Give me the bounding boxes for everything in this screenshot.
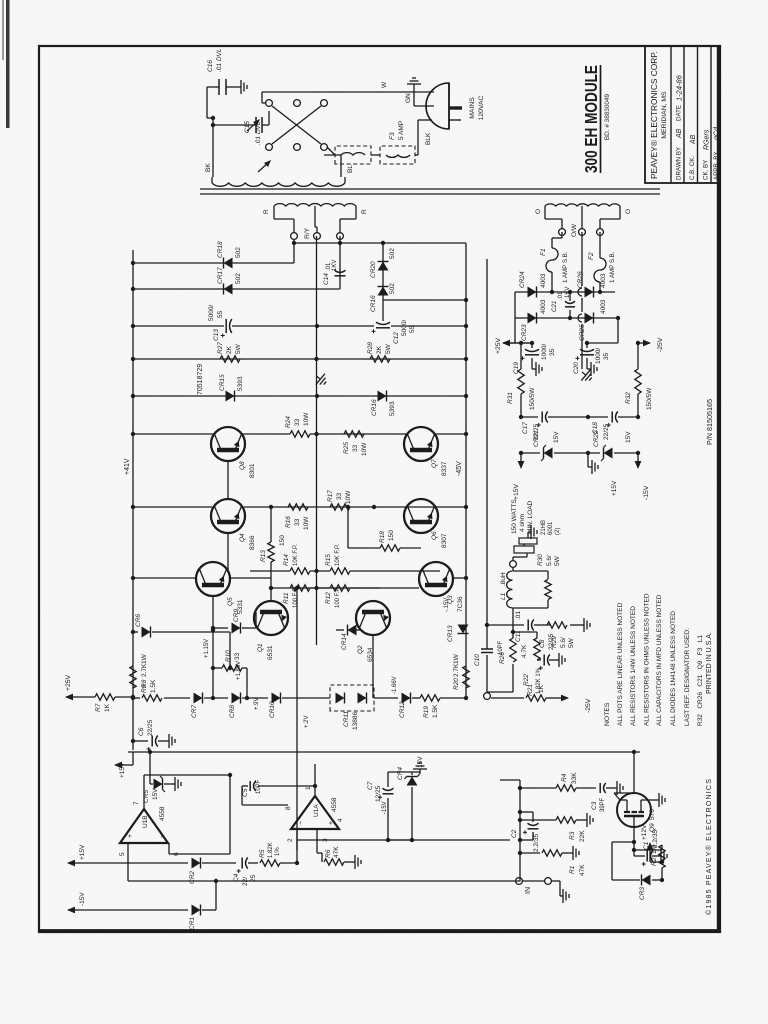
svg-text:+15V: +15V — [119, 762, 126, 778]
capacitor C16 .01 DVL with ground — [207, 86, 219, 88]
svg-text:33: 33 — [352, 444, 359, 452]
svg-text:+: + — [127, 834, 134, 838]
svg-text:R20: R20 — [453, 678, 460, 690]
title block — [645, 46, 720, 183]
svg-text:Q7: Q7 — [431, 459, 438, 468]
svg-text:CR22: CR22 — [593, 430, 600, 447]
svg-text:O/W: O/W — [571, 223, 578, 237]
svg-text:CR14: CR14 — [341, 633, 348, 650]
svg-text:8337: 8337 — [441, 461, 448, 476]
capacitor C19 1000/35 — [525, 354, 539, 356]
svg-text:8: 8 — [285, 806, 292, 810]
svg-text:R17: R17 — [327, 490, 334, 502]
svg-text:O: O — [535, 209, 542, 214]
svg-text:CR12: CR12 — [399, 701, 406, 718]
svg-text:6531: 6531 — [267, 645, 274, 660]
svg-text:CR21: CR21 — [533, 430, 540, 447]
svg-text:CR13: CR13 — [447, 625, 454, 642]
Q4 collector emitter column — [133, 506, 212, 508]
svg-text:C7: C7 — [367, 781, 374, 790]
svg-text:8366: 8366 — [249, 535, 256, 550]
diode CR14 — [336, 629, 344, 631]
svg-text:4558: 4558 — [331, 797, 338, 812]
svg-text:CR4: CR4 — [397, 767, 404, 780]
resistor R21 1K to -25V — [491, 697, 524, 699]
svg-text:R24: R24 — [285, 416, 292, 428]
svg-text:R10: R10 — [225, 650, 232, 662]
svg-text:+25V: +25V — [495, 337, 502, 354]
svg-text:5W: 5W — [385, 343, 392, 354]
svg-text:5W: 5W — [235, 343, 242, 354]
svg-text:+: + — [328, 821, 335, 825]
svg-text:.01 DVL: .01 DVL — [216, 48, 223, 72]
svg-text:150: 150 — [388, 530, 395, 541]
svg-text:4558: 4558 — [159, 806, 166, 821]
capacitor C4 22/25 — [241, 858, 243, 869]
transistor Q4 8366 — [211, 499, 245, 533]
svg-text:DRAWN BY: DRAWN BY — [676, 147, 683, 180]
resistor R20 2.7K 1W — [463, 666, 469, 688]
svg-text:CR3: CR3 — [639, 887, 646, 900]
wire W — [262, 91, 434, 93]
svg-text:R18: R18 — [379, 531, 386, 543]
zener CR21 15V — [521, 452, 540, 454]
svg-text:25: 25 — [250, 874, 257, 882]
svg-text:8307: 8307 — [441, 533, 448, 548]
zener CR4 15V — [407, 777, 418, 786]
svg-text:R7: R7 — [95, 703, 102, 712]
resistor R26 4.7K — [512, 664, 514, 692]
secondary 1 terminals — [291, 233, 298, 240]
svg-text:1.82K: 1.82K — [268, 842, 274, 858]
svg-text:©1985 PEAVEY® ELECTRONICS: ©1985 PEAVEY® ELECTRONICS — [705, 778, 713, 915]
svg-text:CR11: CR11 — [343, 710, 350, 727]
svg-text:55: 55 — [409, 325, 416, 333]
transistor Q3 7C36 — [419, 562, 453, 596]
svg-text:C5: C5 — [242, 788, 249, 797]
svg-text:MIN. LOAD: MIN. LOAD — [527, 500, 534, 534]
capacitor C8 22/25 — [543, 655, 545, 666]
diode CR7 — [194, 693, 203, 704]
svg-text:10K F.P.: 10K F.P. — [293, 544, 299, 566]
svg-text:C3: C3 — [591, 801, 598, 810]
svg-text:1W: 1W — [453, 653, 460, 664]
wire output leg — [512, 608, 514, 625]
svg-text:BL: BL — [347, 165, 354, 173]
svg-text:ALL DIODES 1N4148 UNLESS NOTED: ALL DIODES 1N4148 UNLESS NOTED — [670, 611, 677, 726]
svg-text:P/N 81505165: P/N 81505165 — [705, 399, 714, 445]
svg-text:22/25: 22/25 — [147, 719, 154, 736]
svg-text:+15V: +15V — [79, 844, 86, 860]
svg-text:1K: 1K — [104, 703, 111, 712]
svg-text:502: 502 — [389, 283, 396, 294]
resistor R13 150 — [270, 562, 272, 601]
svg-text:2.2/35: 2.2/35 — [533, 834, 540, 852]
capacitor C17 22/25 — [521, 416, 538, 418]
circuit breaker (dashed) — [335, 146, 371, 164]
svg-text:33: 33 — [294, 418, 301, 426]
output bus left terminal — [484, 693, 491, 700]
output bus — [486, 259, 488, 640]
+12V feed — [661, 868, 663, 880]
svg-text:R16: R16 — [285, 516, 292, 528]
svg-text:MERIDIAN, MS: MERIDIAN, MS — [661, 91, 668, 139]
svg-text:5: 5 — [119, 852, 126, 856]
op-amp U1B 4558 — [120, 809, 168, 843]
wire — [371, 154, 380, 156]
svg-text:R12: R12 — [325, 592, 332, 604]
svg-text:502: 502 — [235, 273, 242, 284]
+25V node — [514, 318, 516, 343]
capacitor C14 .01 1KV — [339, 236, 341, 283]
rectifier CR16 502 — [378, 287, 389, 296]
diode CR24 4003 — [515, 291, 552, 293]
svg-text:CR26: CR26 — [577, 271, 584, 288]
svg-text:15V: 15V — [625, 431, 632, 443]
svg-text:Q4: Q4 — [239, 533, 246, 542]
svg-text:5393: 5393 — [389, 401, 396, 416]
input jack — [516, 878, 523, 885]
transistor Q8 8301 — [211, 427, 245, 461]
resistor R3 22K — [520, 819, 556, 821]
svg-text:-1.66V: -1.66V — [392, 676, 398, 694]
svg-text:CR18: CR18 — [217, 241, 224, 258]
capacitor C21 .01 1KV — [565, 306, 575, 308]
svg-text:R3: R3 — [569, 831, 576, 840]
svg-text:1%: 1% — [275, 847, 281, 856]
svg-text:35: 35 — [549, 348, 556, 356]
ground bus / center tap — [316, 236, 318, 645]
svg-text:8301: 8301 — [249, 463, 256, 478]
svg-text:R32: R32 — [625, 392, 632, 404]
wire Q5 base row — [212, 596, 214, 698]
svg-text:33: 33 — [336, 492, 343, 500]
svg-text:R5: R5 — [259, 849, 266, 858]
wire BLK — [415, 154, 418, 156]
inductor L1 8uH — [513, 607, 548, 609]
svg-text:C8: C8 — [539, 639, 546, 648]
svg-text:5.6/: 5.6/ — [546, 555, 553, 566]
svg-text:R22: R22 — [523, 674, 530, 686]
wire R14 R15 junction — [380, 570, 440, 572]
resistor R15 10K F.P. — [310, 570, 330, 572]
svg-text:576: 576 — [649, 809, 656, 820]
svg-text:R4: R4 — [561, 773, 568, 782]
resistor R6 47K with ground — [316, 829, 318, 853]
svg-text:C12: C12 — [393, 332, 400, 344]
svg-text:33: 33 — [294, 518, 301, 526]
svg-text:Q6: Q6 — [431, 531, 438, 540]
Q5 collector to rail — [133, 577, 196, 579]
svg-text:-.15V: -.15V — [444, 598, 450, 612]
svg-text:2.7K: 2.7K — [141, 663, 148, 677]
svg-text:Q8: Q8 — [239, 461, 246, 470]
svg-text:+15V: +15V — [611, 480, 618, 496]
transformer core — [200, 193, 660, 195]
transformer secondary 2 (orange) — [545, 204, 620, 206]
transformer primary winding — [212, 183, 345, 186]
svg-text:.01: .01 — [558, 291, 564, 300]
diode CR26 4003 — [552, 291, 615, 293]
border frame — [39, 46, 720, 932]
svg-text:R: R — [263, 209, 270, 214]
svg-text:BD. # 38830049: BD. # 38830049 — [604, 93, 611, 140]
resistor R30 5.6 5W — [545, 580, 551, 600]
transistor Q5 5331 — [196, 562, 230, 596]
diode CR10 — [272, 693, 281, 704]
wire to U1A inv input — [296, 829, 298, 863]
wire GN with ground — [414, 105, 434, 107]
svg-text:1 AMP S.B.: 1 AMP S.B. — [609, 251, 616, 283]
svg-text:1 AMP S.B.: 1 AMP S.B. — [562, 251, 569, 283]
transistor Q9 576 (FET) — [617, 793, 651, 827]
svg-text:−: − — [298, 821, 305, 825]
svg-text:150: 150 — [279, 535, 286, 546]
svg-text:CR15: CR15 — [219, 374, 226, 391]
svg-text:PEAVEY® ELECTRONICS CORP.: PEAVEY® ELECTRONICS CORP. — [650, 51, 659, 179]
svg-text:1-24-86: 1-24-86 — [675, 74, 684, 101]
center tap to ground — [581, 232, 583, 286]
-45V rail — [465, 250, 467, 700]
svg-text:C6: C6 — [138, 727, 145, 736]
diode CR13 — [458, 625, 469, 634]
svg-text:ALL RESISTORS 1/4W UNLESS NOTE: ALL RESISTORS 1/4W UNLESS NOTED — [630, 606, 637, 726]
diode CR1 — [68, 909, 80, 911]
rectifier CR18 502 — [133, 262, 294, 264]
svg-text:CR25: CR25 — [579, 324, 586, 341]
svg-text:1.82K 1%: 1.82K 1% — [536, 667, 542, 694]
svg-text:R15: R15 — [325, 554, 332, 566]
svg-text:35: 35 — [603, 352, 610, 360]
capacitor C6 22/25 with ground — [133, 740, 148, 742]
svg-text:1000/: 1000/ — [595, 348, 602, 364]
svg-text:CR24: CR24 — [519, 271, 526, 288]
resistor R17 33 10W — [330, 504, 350, 510]
diode CR25 4003 — [552, 317, 618, 319]
resistor R32 150/5W — [637, 394, 639, 417]
svg-text:ALL RESISTORS IN OHMS UNLESS N: ALL RESISTORS IN OHMS UNLESS NOTED — [644, 593, 651, 726]
+15V output — [520, 453, 522, 467]
+15V run and zener CR5 — [128, 751, 640, 753]
svg-text:U1B: U1B — [142, 815, 149, 828]
svg-text:-15V: -15V — [79, 892, 86, 906]
resistor R1 47K — [520, 852, 540, 854]
diode CR2 — [68, 862, 80, 864]
svg-text:5.6/: 5.6/ — [560, 637, 567, 648]
svg-text:10W: 10W — [345, 490, 352, 504]
svg-text:10W: 10W — [303, 516, 310, 530]
output terminal — [510, 561, 517, 568]
jack sleeve ground — [552, 880, 560, 882]
svg-text:-25V: -25V — [657, 337, 664, 352]
svg-text:R31: R31 — [507, 392, 514, 404]
svg-text:5 AMP: 5 AMP — [398, 121, 405, 140]
diode CR23 4003 — [515, 317, 552, 319]
svg-text:1W: 1W — [141, 653, 148, 664]
resistor R22 1.82K 1% — [534, 638, 540, 660]
svg-text:R13: R13 — [260, 550, 267, 562]
-15V output — [637, 453, 639, 467]
capacitor C3 39PF — [599, 783, 601, 793]
svg-text:70518729: 70518729 — [197, 364, 204, 395]
capacitor C5 10PF — [258, 785, 315, 787]
svg-text:R19: R19 — [423, 706, 430, 718]
svg-text:33K: 33K — [571, 772, 578, 784]
svg-text:10K F.P.: 10K F.P. — [335, 544, 341, 566]
fuse F2 1 AMP S.B. — [599, 232, 601, 258]
transistor Q2 6534 — [356, 601, 390, 635]
capacitor C13 5000/55 — [133, 325, 224, 327]
svg-text:502: 502 — [389, 248, 396, 259]
svg-text:Q2: Q2 — [357, 645, 364, 654]
svg-text:4003: 4003 — [600, 273, 607, 288]
svg-text:R32 CR26 C21 Q9 F3 L: R32 CR26 C21 Q9 F3 L1 — [697, 635, 704, 726]
resistor R25 33 10W — [344, 431, 364, 437]
svg-text:C10: C10 — [474, 654, 481, 666]
resistor R24 33 10W — [290, 431, 310, 437]
svg-text:300 EH MODULE: 300 EH MODULE — [581, 65, 601, 173]
svg-text:gCd: gCd — [714, 126, 721, 140]
svg-text:BK: BK — [205, 163, 212, 172]
svg-text:R30: R30 — [537, 554, 544, 566]
resistor R2 1M — [634, 849, 662, 851]
svg-text:+.9V: +.9V — [254, 697, 260, 710]
svg-text:F3: F3 — [389, 132, 396, 140]
svg-text:4003: 4003 — [540, 299, 547, 314]
svg-text:+15V: +15V — [513, 483, 520, 500]
svg-text:C.B. CK.: C.B. CK. — [689, 156, 696, 180]
svg-text:R28: R28 — [367, 342, 374, 354]
svg-text:Q5: Q5 — [227, 597, 234, 606]
resistor R14 10K F.P. — [250, 570, 290, 572]
svg-text:.8uH: .8uH — [500, 572, 507, 586]
svg-text:C17: C17 — [522, 422, 529, 434]
svg-text:CR10: CR10 — [269, 701, 276, 718]
wire switch to breaker — [327, 147, 335, 155]
svg-text:22/: 22/ — [242, 877, 249, 886]
svg-text:+41V: +41V — [124, 458, 131, 475]
transistor Q6 8307 — [404, 499, 438, 533]
svg-text:C2: C2 — [511, 829, 518, 838]
svg-text:W: W — [381, 81, 388, 88]
svg-text:ALL CAPACITORS IN MFD UNLESS N: ALL CAPACITORS IN MFD UNLESS NOTED — [656, 594, 663, 726]
svg-text:10W: 10W — [361, 442, 368, 456]
wire Q4 base — [227, 533, 229, 572]
svg-text:2.7K: 2.7K — [453, 663, 460, 677]
svg-text:5000/: 5000/ — [208, 305, 215, 321]
wire input to U1B — [500, 779, 520, 781]
transformer secondary 1 (red) — [274, 204, 356, 206]
svg-text:CR23: CR23 — [521, 324, 528, 341]
svg-text:100 F.P.: 100 F.P. — [335, 586, 341, 608]
transistor Q1 6531 — [254, 601, 288, 635]
svg-text:C20: C20 — [573, 362, 580, 374]
svg-text:GN: GN — [405, 93, 412, 103]
svg-text:CR9: CR9 — [233, 609, 240, 622]
svg-text:22/25: 22/25 — [548, 633, 555, 650]
input line — [519, 780, 521, 881]
resistor R31 150/5W — [520, 394, 522, 417]
svg-text:2: 2 — [287, 838, 294, 842]
U1A output — [314, 764, 316, 796]
Q9 gate line — [633, 827, 635, 850]
svg-text:39PF: 39PF — [600, 797, 606, 812]
svg-text:22K: 22K — [579, 830, 586, 842]
output sense resistors 21HB 6001 — [513, 556, 527, 558]
svg-text:NOTES: NOTES — [604, 702, 611, 726]
bias diodes CR11 13886 (dashed) — [330, 685, 374, 711]
svg-text:13886: 13886 — [352, 712, 359, 730]
svg-text:PRINTED IN U.S.A.: PRINTED IN U.S.A. — [706, 632, 713, 694]
rectifier CR17 502 — [133, 288, 340, 290]
svg-text:F1: F1 — [540, 248, 547, 256]
resistor R12 100 F.P. — [310, 587, 330, 589]
svg-text:-25V: -25V — [585, 698, 592, 713]
svg-text:+1.15V: +1.15V — [204, 639, 210, 658]
wire Q8 base — [227, 461, 229, 499]
zener CR22 15V — [554, 452, 600, 454]
resistor R19 1.5K — [420, 695, 440, 701]
svg-text:47K: 47K — [333, 846, 340, 858]
svg-text:22/25: 22/25 — [603, 423, 610, 440]
capacitor C1 2.2/35 — [633, 850, 635, 856]
svg-text:5393: 5393 — [237, 376, 244, 391]
svg-text:−: − — [159, 834, 166, 838]
svg-text:21HB: 21HB — [541, 520, 547, 535]
capacitor C7 12/25 — [387, 798, 389, 840]
svg-text:DATE: DATE — [676, 105, 683, 121]
resistor R11 100 F.P. — [271, 587, 290, 589]
zener CR5 15V — [154, 779, 163, 790]
svg-text:-45V: -45V — [456, 461, 463, 476]
svg-text:(2): (2) — [555, 528, 561, 535]
svg-text:4: 4 — [337, 818, 344, 822]
diode CR15 5393 — [133, 395, 317, 397]
svg-text:120VAC: 120VAC — [478, 96, 485, 121]
resistor R4 33K — [520, 787, 556, 789]
svg-text:CR2: CR2 — [189, 871, 196, 884]
svg-text:+1.86V: +1.86V — [236, 661, 242, 680]
long -15V run — [297, 839, 510, 841]
svg-text:-15V: -15V — [382, 801, 388, 814]
svg-text:15V: 15V — [152, 788, 159, 800]
svg-text:1.5K: 1.5K — [432, 704, 439, 718]
svg-text:APPR. BY: APPR. BY — [713, 151, 720, 180]
svg-text:R25: R25 — [343, 442, 350, 454]
svg-text:C4: C4 — [233, 873, 240, 882]
svg-text:1000/: 1000/ — [541, 344, 548, 360]
svg-text:CR16: CR16 — [370, 295, 377, 312]
svg-text:12/25: 12/25 — [375, 785, 382, 802]
diode CR16 5393 — [317, 395, 467, 397]
svg-text:Q1: Q1 — [257, 643, 264, 652]
svg-text:150 WATTS: 150 WATTS — [511, 499, 518, 534]
U1B output and feedback loop — [143, 775, 145, 809]
svg-text:7: 7 — [133, 801, 140, 805]
svg-text:R1: R1 — [569, 865, 576, 874]
fuse F3 5 AMP (dashed) — [380, 146, 415, 164]
wire AC to negative rectifier — [294, 242, 466, 244]
wire -45V to bus — [383, 299, 466, 301]
capacitor C18 22/25 — [588, 416, 608, 418]
op-amp U1A 4558 — [291, 796, 339, 829]
zobel C11 .01 — [487, 624, 524, 626]
-25V node — [617, 318, 619, 343]
svg-text:2K: 2K — [376, 345, 383, 354]
svg-text:U1A: U1A — [313, 804, 320, 817]
svg-text:1.5K: 1.5K — [150, 679, 157, 693]
svg-text:CR8: CR8 — [229, 705, 236, 718]
